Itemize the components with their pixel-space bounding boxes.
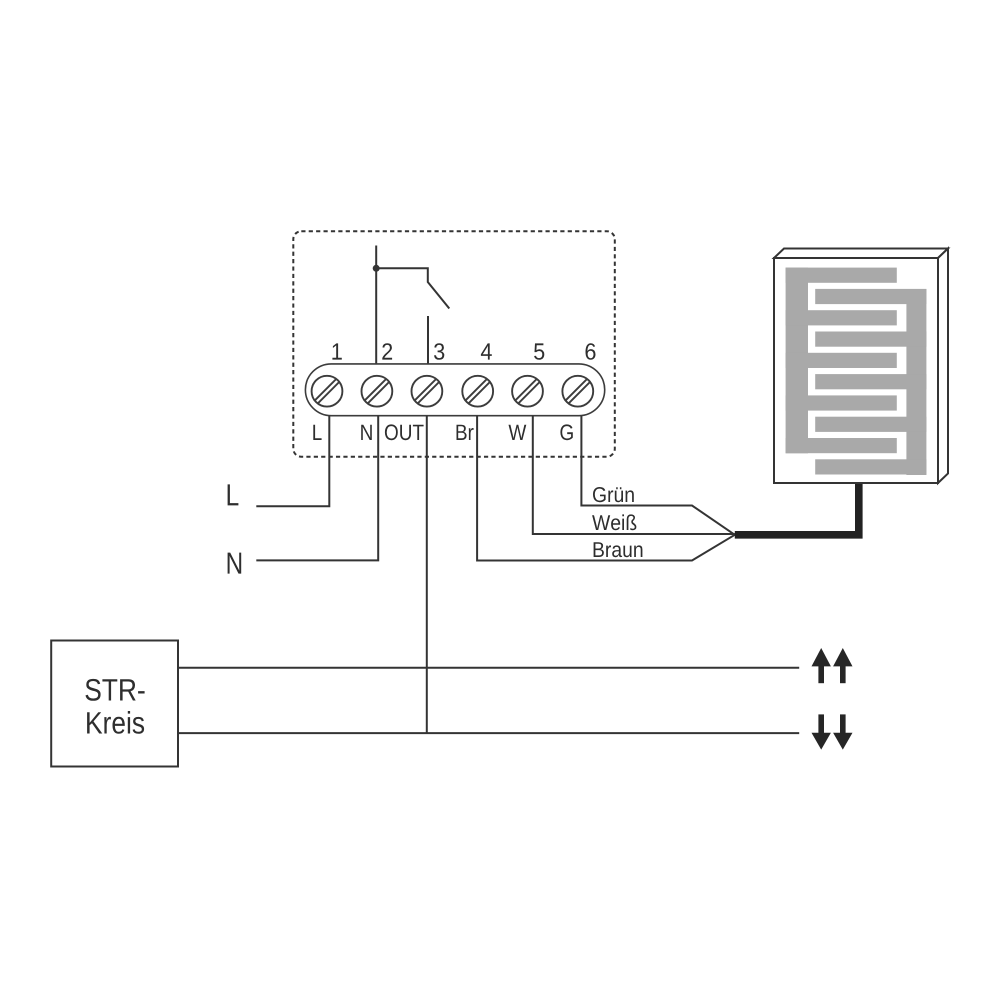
terminal screw 2 (362, 376, 393, 407)
terminal label Br (457, 425, 474, 440)
thermostat dashed enclosure (293, 231, 615, 457)
terminal screw 4 (462, 376, 493, 407)
STR-Kreis box (51, 641, 178, 767)
terminal screw 5 (512, 376, 543, 407)
pin number 3 (434, 343, 444, 360)
relay switch S1 arm (376, 268, 449, 308)
wire: relay feed from terminal 2 (375, 246, 377, 377)
STR-Kreis label (86, 679, 145, 701)
heating mat right face (938, 249, 948, 484)
wire: STR top conductor (178, 667, 799, 669)
up arrows (812, 648, 853, 683)
wire: N supply to terminal 2 (256, 416, 378, 561)
wire: OUT terminal 3 to STR bottom conductor (426, 416, 428, 733)
pin number 2 (382, 343, 392, 359)
wire label Weiss (592, 514, 636, 530)
node label L (228, 484, 239, 505)
pin number 1 (332, 343, 341, 359)
node label N (228, 553, 242, 574)
terminal screw 3 (412, 376, 443, 407)
terminal label N (361, 425, 372, 440)
junction dot (373, 265, 380, 272)
terminal screw 6 (562, 376, 593, 407)
terminal block body (305, 364, 604, 416)
heating mat top face (774, 249, 948, 259)
terminal screw 1 (312, 376, 343, 407)
pin number 6 (586, 343, 596, 360)
wire: STR bottom conductor (178, 732, 799, 734)
pin number 4 (481, 343, 492, 359)
wire label Braun (594, 542, 643, 557)
terminal label W (509, 425, 527, 440)
sensor cable (thick) (735, 483, 859, 535)
wire: L supply to terminal 1 (256, 416, 329, 507)
relay contact stub to terminal 3 (427, 316, 429, 376)
heating mat body (774, 258, 938, 483)
wire: Weiss (terminal 5 to cable node) (533, 416, 735, 534)
terminal label L (313, 425, 321, 440)
wire: Braun (terminal 4 to cable node) (477, 416, 735, 561)
terminal label G (560, 424, 572, 440)
down arrows (812, 714, 853, 749)
heating element meander (786, 268, 927, 475)
wire: Gruen (terminal 6 to cable node) (581, 416, 734, 535)
terminal label OUT (385, 424, 424, 440)
wire label Gruen (593, 487, 634, 502)
pin number 5 (534, 343, 544, 359)
